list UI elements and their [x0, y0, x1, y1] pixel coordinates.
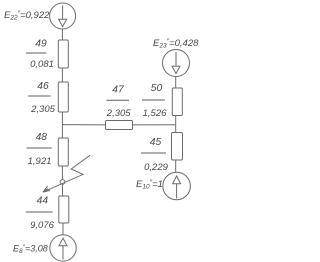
wire node K to R44: [62, 184, 64, 196]
wire R46 to R48: [61, 112, 63, 138]
svg-text:46: 46: [37, 81, 49, 92]
node K circle: [60, 180, 65, 185]
source E22 arrow: [59, 6, 67, 27]
fault arrowhead: [43, 186, 50, 192]
resistor R47: [106, 121, 133, 130]
resistor R44: [59, 196, 69, 223]
fraction line R45: [141, 152, 166, 154]
wire horizontal left: [62, 124, 105, 126]
svg-text:2,305: 2,305: [106, 108, 131, 119]
wire R48 to node K: [61, 166, 63, 180]
source E23 arrow: [172, 52, 180, 74]
resistor R46: [58, 82, 68, 112]
svg-text:E23″=0,428: E23″=0,428: [153, 38, 199, 50]
resistor R45: [172, 133, 183, 161]
svg-text:E10″=1: E10″=1: [136, 179, 163, 191]
svg-text:50: 50: [151, 83, 163, 94]
fault lightning arrow: [43, 155, 90, 192]
resistor R49: [58, 40, 68, 68]
source E8 circle: [50, 235, 76, 261]
resistor R50: [172, 88, 182, 116]
svg-text:1,526: 1,526: [143, 108, 167, 119]
source E22 circle: [50, 3, 76, 29]
wire E23 to R50: [175, 77, 177, 89]
source E8 arrow: [59, 238, 67, 259]
svg-text:1,921: 1,921: [28, 156, 52, 167]
svg-text:45: 45: [150, 137, 162, 148]
resistor R48: [58, 138, 68, 166]
wire R44 to E8: [62, 223, 64, 235]
svg-text:0,229: 0,229: [144, 162, 168, 173]
wire top to R49: [61, 29, 63, 40]
fraction line R46: [28, 95, 51, 97]
wire horizontal right: [133, 124, 176, 126]
svg-text:48: 48: [36, 132, 48, 143]
fraction line R44: [26, 211, 53, 213]
source E10 arrow: [173, 176, 181, 199]
svg-text:E22″=0,922: E22″=0,922: [4, 10, 50, 22]
fraction line R47: [106, 99, 129, 101]
wire R50 to R45: [175, 116, 177, 133]
fraction line R49: [26, 52, 47, 54]
fraction line R48: [27, 147, 52, 149]
source E10 circle: [163, 172, 191, 200]
svg-text:2,305: 2,305: [30, 104, 55, 115]
svg-text:9,076: 9,076: [30, 220, 54, 231]
wire R49 to R46: [61, 68, 63, 82]
svg-text:44: 44: [37, 196, 49, 207]
svg-text:0,081: 0,081: [30, 59, 54, 70]
svg-text:47: 47: [112, 85, 125, 96]
wire R45 to E10: [175, 160, 177, 172]
svg-text:E8″=3,08: E8″=3,08: [13, 244, 48, 256]
svg-text:49: 49: [35, 39, 47, 50]
fraction line R50: [142, 99, 165, 101]
source E23 circle: [163, 50, 190, 77]
